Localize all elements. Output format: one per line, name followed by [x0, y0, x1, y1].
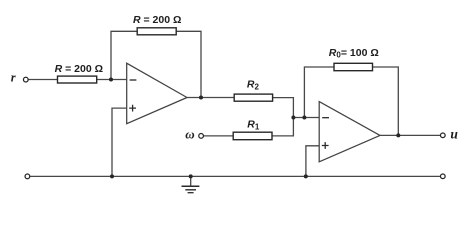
svg-text:u: u: [450, 127, 458, 142]
svg-text:r: r: [11, 70, 16, 84]
svg-text:R1: R1: [247, 118, 260, 131]
svg-text:R = 200 Ω: R = 200 Ω: [133, 14, 181, 26]
svg-text:R0= 100 Ω: R0= 100 Ω: [329, 47, 379, 60]
svg-text:R = 200 Ω: R = 200 Ω: [55, 63, 103, 75]
svg-text:ω: ω: [185, 126, 194, 141]
svg-text:R2: R2: [247, 78, 260, 91]
